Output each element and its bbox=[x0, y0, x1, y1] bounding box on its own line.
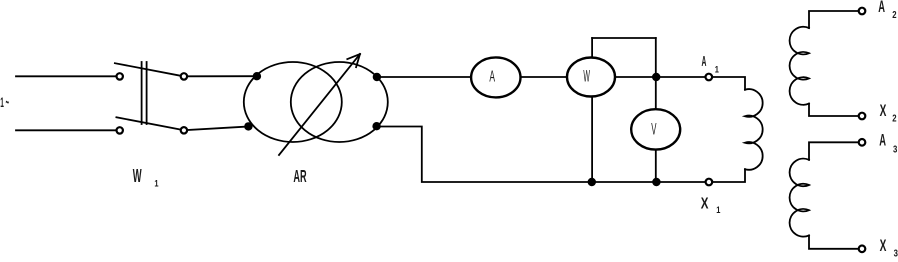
svg-text:X: X bbox=[880, 101, 887, 119]
svg-text:2: 2 bbox=[892, 113, 896, 124]
svg-text:3: 3 bbox=[893, 144, 897, 155]
svg-text:X: X bbox=[701, 195, 709, 212]
svg-text:~: ~ bbox=[6, 93, 9, 112]
svg-text:1: 1 bbox=[0, 95, 4, 110]
svg-text:1: 1 bbox=[154, 179, 159, 189]
svg-text:V: V bbox=[651, 119, 656, 138]
svg-text:1: 1 bbox=[715, 65, 720, 75]
svg-text:A: A bbox=[879, 131, 886, 150]
svg-text:2: 2 bbox=[892, 9, 896, 20]
svg-text:X: X bbox=[880, 237, 887, 255]
svg-text:3: 3 bbox=[894, 247, 898, 258]
svg-text:A: A bbox=[489, 68, 495, 85]
svg-text:AR: AR bbox=[293, 166, 306, 186]
svg-text:A: A bbox=[702, 55, 707, 70]
svg-text:A: A bbox=[878, 0, 885, 16]
svg-text:W: W bbox=[583, 67, 590, 85]
svg-text:1: 1 bbox=[716, 205, 721, 215]
svg-text:W: W bbox=[133, 167, 142, 187]
